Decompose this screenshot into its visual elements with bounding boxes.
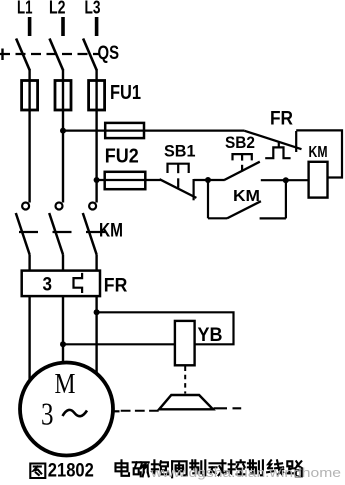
wire phase1 upper: [28, 69, 30, 203]
svg-text:SB1: SB1: [164, 142, 196, 161]
fuse FU1: [22, 81, 141, 111]
motor M: [20, 363, 113, 456]
svg-text:L1: L1: [17, 0, 33, 18]
node L3: [85, 0, 101, 36]
pushbutton SB2: [225, 133, 260, 180]
svg-text:YB: YB: [198, 325, 223, 346]
node junction phase2 to FU2: [60, 128, 66, 134]
svg-text:KM: KM: [99, 221, 123, 242]
wire phase3 mid: [95, 255, 97, 272]
wire phase3 lower: [95, 295, 97, 374]
contactor KM main contacts: [16, 203, 123, 255]
wire phase1 mid: [28, 255, 30, 272]
wire loop to coil: [296, 130, 342, 177]
wire phase1 lower: [28, 295, 30, 382]
svg-text:FR: FR: [270, 109, 293, 130]
contact FR normally-closed: [245, 109, 302, 159]
coil KM: [309, 144, 328, 198]
svg-text:KM: KM: [309, 144, 328, 161]
node L1: [17, 0, 33, 36]
fuse FU2 bottom: [105, 172, 146, 189]
wire rail A: [194, 179, 225, 181]
svg-text:21802: 21802: [48, 460, 94, 480]
node junction phase3 to FU2: [94, 177, 100, 183]
switch QS: [0, 39, 119, 71]
svg-text:FU1: FU1: [110, 82, 141, 104]
node junction phase3 to YB: [94, 309, 100, 315]
wire mechanical link dashed: [184, 367, 186, 394]
relay FR thermal element box: [22, 271, 128, 297]
wire control bottom feed: [97, 179, 161, 181]
svg-text:FR: FR: [104, 276, 128, 297]
caption title: [30, 460, 302, 478]
wire brake dash right: [214, 407, 242, 409]
brake shoe YB: [159, 395, 213, 409]
node junction B: [283, 177, 289, 183]
svg-text:www.dgsha.dian.windhome: www.dgsha.dian.windhome: [150, 466, 341, 480]
wire phase2 to YB: [63, 343, 175, 345]
svg-text:KM: KM: [233, 188, 260, 205]
svg-text:L2: L2: [49, 0, 66, 18]
wire YB loop: [97, 312, 234, 344]
wire rail B: [261, 179, 309, 181]
svg-text:M: M: [55, 368, 76, 400]
svg-text:FU2: FU2: [105, 146, 139, 168]
wire phase2 lower: [62, 295, 64, 364]
caption figure number: [48, 460, 94, 482]
wire motor to brake dash-dot: [113, 410, 159, 413]
node junction phase2 to YB: [60, 341, 66, 347]
svg-text:SB2: SB2: [225, 133, 255, 152]
coil YB brake: [175, 321, 223, 365]
pushbutton SB1: [160, 142, 197, 201]
wire phase3 upper: [95, 69, 97, 203]
svg-text:QS: QS: [98, 43, 120, 64]
wire phase2 mid: [62, 255, 64, 272]
fuse FU2 top: [105, 123, 144, 168]
node junction A: [205, 177, 211, 183]
svg-text:L3: L3: [85, 0, 101, 18]
svg-text:3: 3: [41, 396, 54, 432]
svg-text:3: 3: [43, 275, 53, 296]
contact KM auxiliary: [208, 180, 286, 218]
node L2: [49, 0, 66, 36]
wire phase2 upper: [62, 69, 64, 203]
wire control top rail: [63, 130, 245, 132]
